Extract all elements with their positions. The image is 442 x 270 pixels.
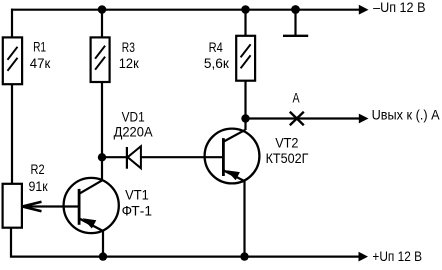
wire left vertical from top rail to R1 — [11, 9, 13, 38]
svg-text:VD1: VD1 — [122, 109, 145, 125]
svg-text:12к: 12к — [119, 55, 140, 71]
svg-text:47к: 47к — [30, 55, 51, 71]
svg-text:91к: 91к — [29, 178, 49, 194]
resistor R4 — [236, 36, 255, 81]
wire VT1 emitter to bottom rail — [102, 231, 104, 258]
node top rail / R4 junction — [241, 5, 250, 14]
node A cross mark — [290, 112, 304, 125]
ground — [283, 10, 308, 36]
resistor R1 — [3, 37, 22, 84]
svg-text:–Uп 12 В: –Uп 12 В — [373, 0, 425, 15]
svg-text:R3: R3 — [122, 39, 135, 55]
wire diode to VT2 base — [141, 156, 223, 158]
wire left vertical R2 to bottom rail — [11, 227, 360, 257]
arrowhead top rail terminal — [359, 5, 369, 15]
resistor R3 — [91, 37, 110, 82]
svg-text:Д220А: Д220А — [114, 123, 154, 139]
svg-text:А: А — [293, 90, 301, 106]
wire R2 wiper to VT1 base — [22, 205, 78, 207]
svg-text:Uвых к (.) А: Uвых к (.) А — [372, 106, 441, 122]
wire R3 to VD1 node and VT1 collector — [101, 82, 103, 181]
wire R4 to VT2 collector — [244, 81, 246, 131]
transistor VT2 — [205, 129, 260, 184]
wire node to diode — [102, 156, 126, 158]
wire output line to terminal — [246, 117, 360, 119]
svg-text:VT2: VT2 — [275, 135, 298, 151]
svg-text:КТ502Г: КТ502Г — [266, 150, 309, 166]
transistor VT1 — [64, 178, 119, 233]
svg-text:R4: R4 — [209, 39, 223, 55]
svg-text:R2: R2 — [31, 161, 45, 177]
node top rail / R3 junction — [98, 5, 107, 14]
wire top rail to R4 — [244, 10, 246, 37]
node output junction — [241, 114, 249, 122]
wire VT2 emitter to bottom rail — [243, 181, 245, 258]
node VD1 / R3 / VT1 collector junction — [98, 153, 106, 161]
arrowhead bottom rail terminal — [359, 252, 369, 262]
svg-text:+Uп 12 В: +Uп 12 В — [372, 248, 422, 264]
resistor R2 (potentiometer) — [3, 184, 22, 228]
svg-text:R1: R1 — [33, 38, 46, 54]
svg-text:ФТ-1: ФТ-1 — [122, 202, 153, 218]
node bottom rail / VT2 emitter — [240, 252, 248, 260]
wire top rail — [11, 9, 360, 11]
R2 wiper arrowhead — [22, 202, 41, 212]
node top rail / ground junction — [291, 5, 300, 14]
diode VD1 — [127, 146, 141, 169]
svg-text:5,6к: 5,6к — [204, 55, 230, 71]
wire top rail to R3 — [101, 10, 103, 38]
node bottom rail / VT1 emitter — [99, 252, 107, 260]
wire left vertical R1 to R2 — [11, 84, 13, 185]
svg-text:VT1: VT1 — [125, 186, 149, 202]
arrowhead output terminal — [359, 114, 369, 124]
